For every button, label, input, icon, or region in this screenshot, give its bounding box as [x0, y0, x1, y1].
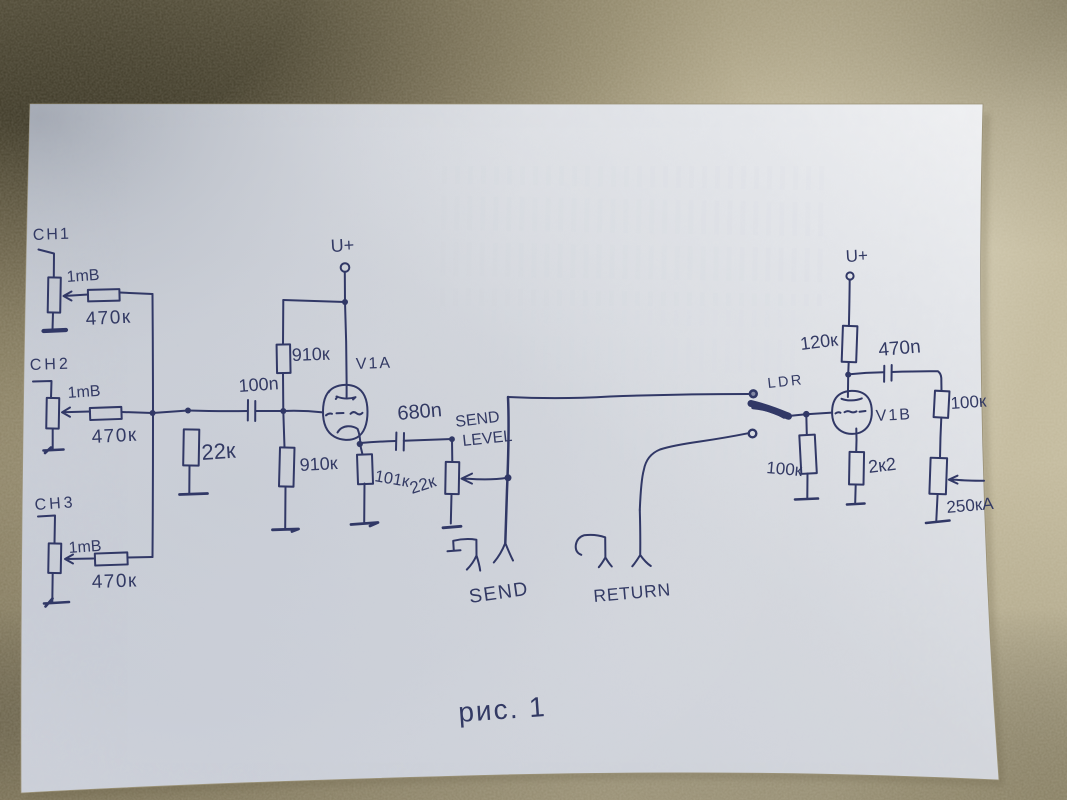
wire anode V1A [345, 302, 347, 397]
terminal LDR top [750, 390, 757, 397]
resistor 120k [842, 326, 858, 362]
node LDR output blob [784, 412, 791, 419]
wire junction to 100n [188, 410, 248, 413]
wire 100k out to 250kA pot [940, 418, 941, 459]
wire CH3 pot to ground [51, 573, 53, 602]
svg-text:CH2: CH2 [30, 356, 72, 374]
wire cathode node to 101k [360, 444, 363, 455]
wire LDR to grid junction [789, 414, 807, 416]
ground send level [443, 526, 461, 528]
svg-text:910к: 910к [291, 344, 330, 365]
wire 2k2 to ground [854, 485, 857, 503]
wire 101k to ground [363, 484, 365, 523]
wire SEND vertical [505, 397, 508, 543]
wire grid V1A [283, 411, 323, 413]
resistor 101k [357, 454, 373, 484]
grid dashes V1B [836, 411, 866, 413]
wire send level top leg [451, 439, 453, 462]
svg-text:V1B: V1B [875, 406, 912, 425]
capacitor 470n [884, 365, 892, 382]
resistor 2k2 [849, 452, 864, 485]
node send level top [449, 436, 455, 442]
wire 250kA pot to ground [936, 494, 937, 521]
wiper arrow 250kA [949, 476, 984, 484]
svg-text:1mB: 1mB [66, 267, 100, 286]
svg-text:U+: U+ [330, 235, 355, 256]
svg-text:1mB: 1mB [67, 383, 101, 402]
svg-text:100к: 100к [950, 391, 988, 412]
wire CH1 input [39, 250, 55, 278]
ground 22k [180, 494, 208, 495]
wire plate node to 470n [848, 372, 884, 374]
jack SEND tip contact [448, 539, 481, 571]
ground CH2 [44, 448, 64, 454]
grid dashes V1A [326, 412, 363, 415]
wire junction to 100k grid resistor [805, 414, 808, 435]
wire 100k grid to ground [806, 474, 808, 498]
wire CH2 pot to ground [52, 429, 54, 450]
faint show-through texture [440, 166, 830, 306]
ground CH1 [44, 330, 67, 331]
jack RETURN tip contact [576, 535, 612, 567]
wire node to 910k top [283, 300, 345, 302]
svg-text:470к: 470к [91, 425, 138, 448]
svg-text:910к: 910к [299, 453, 338, 475]
svg-text:2к2: 2к2 [867, 454, 897, 477]
svg-text:рис. 1: рис. 1 [457, 691, 547, 728]
ground 100k grid [795, 499, 818, 500]
node grid junction V1A [280, 408, 286, 414]
svg-text:470к: 470к [85, 307, 132, 330]
wire 910k plate to junction [282, 373, 284, 411]
svg-text:U+: U+ [845, 246, 868, 266]
svg-text:V1A: V1A [356, 355, 393, 373]
wire U+ to 120k [848, 280, 851, 327]
ground 910k bottom [273, 529, 299, 532]
svg-text:100к: 100к [766, 458, 804, 480]
node plate-resistor junction V1A [342, 299, 348, 305]
wiper arrow send level [462, 474, 508, 484]
potentiometer 250kA [929, 458, 947, 495]
node V1B grid junction [803, 411, 810, 418]
resistor 470k (CH2) [90, 407, 122, 420]
wire send level pot to ground [450, 494, 453, 524]
svg-text:470к: 470к [91, 570, 138, 593]
potentiometer CH2 1mB [46, 398, 59, 429]
wire 910k top leg [282, 300, 284, 345]
wiper arrow CH1 [64, 292, 89, 301]
svg-text:CH1: CH1 [33, 226, 72, 244]
resistor 910k (grid leak) [279, 447, 295, 486]
jack SEND sleeve fork [494, 543, 513, 563]
wire U+ to plate node [344, 272, 346, 302]
paper sheet shadow [27, 114, 1000, 795]
capacitor 100n [248, 400, 256, 421]
wire 120k to plate node [847, 362, 850, 374]
cathode V1A [338, 426, 361, 444]
ground 101k [351, 523, 378, 527]
wire 470n to 100k anode load [892, 371, 942, 391]
wire 100n to grid junction [255, 410, 283, 412]
anode plate V1A [336, 397, 356, 400]
svg-text:470n: 470n [878, 336, 922, 361]
potentiometer CH1 1mB [48, 277, 61, 312]
svg-text:22к: 22к [201, 438, 237, 465]
wire CH2 input [33, 381, 52, 398]
ground 250kA [926, 521, 950, 524]
terminal U+ (V1B) [846, 272, 853, 279]
svg-text:CH3: CH3 [34, 494, 76, 514]
node 22k junction [185, 408, 191, 414]
resistor 22k [183, 429, 199, 465]
wire 470k CH2 to bus junction [122, 412, 153, 413]
svg-text:100n: 100n [238, 373, 279, 396]
wire cathode to 680n [360, 441, 395, 443]
cathode V1B [855, 429, 857, 453]
wire 22k to ground [188, 466, 190, 493]
wire send to LDR [508, 394, 749, 398]
wiper arrow CH3 [65, 555, 94, 564]
resistor 100k (V1B out) [934, 391, 950, 418]
capacitor 680n [396, 433, 404, 451]
wire CH3 input [38, 516, 55, 544]
wire CH1 pot to ground [52, 313, 55, 331]
anode plate V1B [842, 398, 862, 400]
wire 680n to send level pot [404, 439, 452, 441]
jack RETURN sleeve fork [632, 510, 651, 566]
triode V1A envelope [323, 385, 368, 440]
resistor 910k (plate) [277, 344, 291, 373]
potentiometer CH3 1mB [48, 543, 61, 573]
ground 2k2 [847, 504, 865, 505]
triode V1B envelope [832, 391, 872, 434]
potentiometer SEND LEVEL 22k [445, 462, 459, 494]
resistor 470k (CH1) [88, 289, 120, 301]
wire RETURN to terminal [640, 433, 748, 510]
wire input bus vertical [152, 294, 155, 557]
wire anode V1B [847, 375, 849, 397]
wire 470k to bus [120, 293, 153, 295]
node cathode V1A [357, 441, 363, 447]
terminal LDR bottom (return) [749, 430, 757, 438]
paper mottling [21, 104, 996, 793]
node plate junction V1B [845, 372, 851, 378]
wire CH2 row to 22k junction [153, 411, 188, 414]
paper sheet [21, 104, 999, 793]
terminal U+ (V1A) [341, 263, 350, 272]
wire 470k CH3 to bus [128, 556, 153, 559]
node send line wiper junction [505, 474, 512, 481]
resistor 470k (CH3) [95, 552, 128, 565]
LDR body [751, 404, 789, 417]
wiper arrow CH2 [62, 408, 90, 417]
resistor 100k (grid V1B) [799, 435, 816, 474]
node bus/CH2 junction [150, 410, 156, 416]
ground CH3 [44, 599, 69, 607]
wire junction to 910k bottom [283, 411, 284, 448]
wire 910k bottom to ground [284, 487, 286, 529]
wire junction to V1B grid [806, 413, 832, 415]
svg-text:680n: 680n [397, 399, 443, 425]
